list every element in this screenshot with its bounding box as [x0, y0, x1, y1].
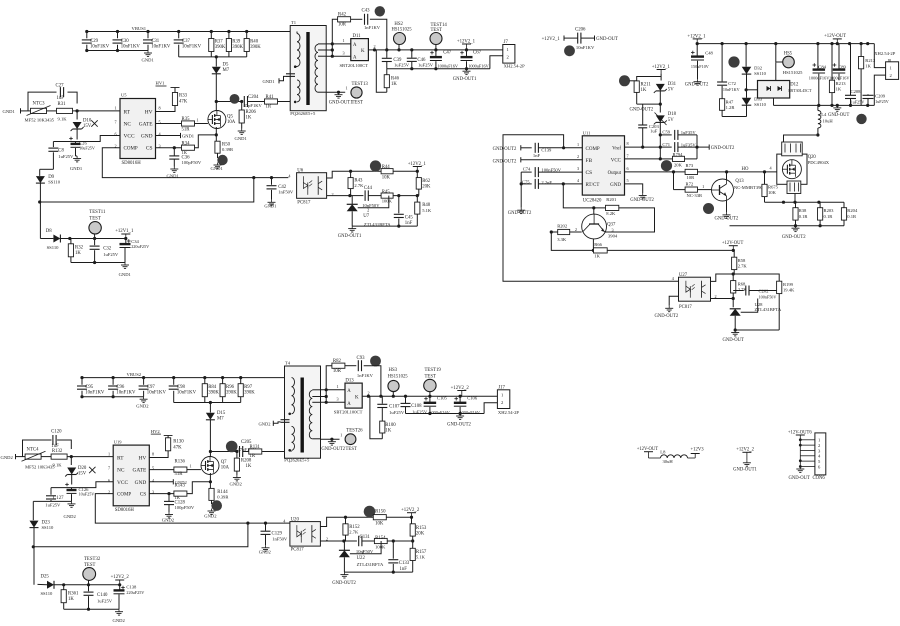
- junction: [38, 200, 41, 203]
- svg-text:+12V2_2: +12V2_2: [736, 448, 754, 453]
- junction: [866, 104, 869, 107]
- svg-text:10R: 10R: [687, 175, 696, 180]
- capacitor C84: [809, 44, 830, 106]
- resistor R143: [174, 483, 187, 500]
- svg-text:HS5: HS5: [784, 52, 793, 57]
- pin 1 label: [197, 118, 199, 123]
- svg-text:100K: 100K: [375, 545, 386, 550]
- svg-text:R84: R84: [208, 385, 217, 390]
- svg-text:NC: NC: [124, 122, 132, 128]
- svg-text:ZTL431BFTA: ZTL431BFTA: [357, 562, 384, 567]
- svg-text:R45: R45: [382, 190, 391, 195]
- svg-text:SS110: SS110: [754, 71, 767, 76]
- wire rt down: [563, 184, 605, 208]
- pin 3 label: [343, 51, 345, 56]
- svg-text:C108: C108: [411, 404, 422, 409]
- svg-text:+12V2_2: +12V2_2: [401, 508, 420, 513]
- svg-text:220uF25V: 220uF25V: [131, 244, 149, 249]
- svg-text:C37: C37: [182, 39, 191, 44]
- svg-text:D5: D5: [223, 63, 229, 68]
- wire L4 to Q20: [784, 135, 818, 147]
- svg-text:+12V3: +12V3: [691, 448, 705, 453]
- svg-text:390K: 390K: [226, 391, 237, 396]
- svg-text:C8: C8: [58, 148, 64, 153]
- inductor L8: [637, 447, 696, 464]
- junction: [246, 522, 249, 525]
- svg-text:C43: C43: [362, 9, 371, 14]
- junction: [672, 170, 675, 173]
- junction: [659, 133, 662, 136]
- svg-text:1: 1: [108, 452, 110, 457]
- inductor L4: [818, 105, 833, 135]
- ground GND1 under R50: [211, 163, 224, 172]
- svg-text:A: A: [353, 43, 357, 48]
- svg-text:HS151025: HS151025: [783, 70, 803, 75]
- svg-text:VCC: VCC: [124, 134, 135, 140]
- resistor R58: [732, 250, 748, 274]
- capacitor C139: [533, 143, 564, 158]
- test pad dark C43: [375, 6, 385, 16]
- wire COMP feedback2: [95, 494, 290, 523]
- ground GND-OUT2 out: [447, 414, 471, 428]
- junction: [142, 376, 145, 379]
- svg-text:HS3: HS3: [389, 368, 398, 373]
- junction: [392, 395, 395, 398]
- svg-text:D20: D20: [78, 466, 87, 471]
- svg-text:T1: T1: [291, 20, 297, 25]
- svg-text:SD8016H: SD8016H: [122, 161, 142, 166]
- wire U6 pin2: [327, 195, 350, 197]
- svg-text:C72: C72: [728, 81, 736, 86]
- svg-text:8: 8: [152, 452, 154, 457]
- junction: [794, 224, 797, 227]
- op-amp U5 SD8016H: [115, 93, 162, 167]
- junction: [252, 176, 255, 179]
- wire C204 to R41: [248, 101, 265, 103]
- svg-text:10uF25V: 10uF25V: [79, 492, 95, 497]
- svg-text:10nF1KV: 10nF1KV: [182, 45, 202, 50]
- junction: [860, 42, 863, 45]
- svg-text:D25: D25: [41, 575, 50, 580]
- ground GND1 under C36: [167, 167, 180, 179]
- junction: [330, 438, 333, 441]
- junction: [816, 42, 819, 45]
- junction: [763, 170, 766, 173]
- svg-text:1K: 1K: [836, 87, 842, 92]
- wire D25 row gnd rail: [64, 608, 119, 610]
- wire CS pin: [156, 147, 182, 149]
- zener D31: [654, 77, 677, 105]
- capacitor C120: [23, 430, 72, 457]
- svg-text:100nF50V: 100nF50V: [541, 167, 561, 172]
- capacitor C29: [82, 32, 110, 51]
- junction: [68, 237, 71, 240]
- capacitor C107: [377, 396, 405, 421]
- svg-text:SS110: SS110: [41, 591, 54, 596]
- shunt ref U7 ZTL431: [347, 196, 392, 227]
- wire CS pin2: [149, 493, 174, 495]
- wire snubber up2: [326, 366, 332, 403]
- svg-text:10A: 10A: [227, 120, 236, 125]
- svg-text:10uF25V: 10uF25V: [79, 145, 95, 150]
- svg-text:0.1R: 0.1R: [847, 214, 857, 219]
- ground GND-OUT2 q13: [715, 212, 739, 221]
- wire GND pin2: [149, 481, 173, 483]
- wire fb bottom rail: [352, 225, 417, 227]
- svg-text:1K: 1K: [865, 64, 871, 69]
- svg-text:1uF25V: 1uF25V: [418, 63, 434, 68]
- svg-text:C67: C67: [473, 51, 482, 56]
- junction: [434, 67, 437, 70]
- test pad dark C206: [564, 45, 575, 56]
- ground GND2 left: [1, 454, 24, 460]
- wire pin1 rail: [351, 170, 382, 172]
- diode D9: [36, 169, 61, 238]
- svg-text:3: 3: [612, 228, 614, 233]
- resistor R34: [182, 142, 195, 156]
- svg-text:1K: 1K: [246, 464, 252, 469]
- svg-text:10nF50V: 10nF50V: [362, 203, 380, 208]
- junction: [264, 522, 267, 525]
- transistor Q37: [582, 214, 618, 239]
- svg-text:GND-OUT2: GND-OUT2: [508, 211, 532, 216]
- svg-text:GND1: GND1: [182, 134, 194, 139]
- svg-text:R136: R136: [175, 460, 186, 465]
- svg-text:R794: R794: [673, 152, 684, 157]
- svg-text:PQ2626E5+5: PQ2626E5+5: [284, 458, 310, 463]
- test point TEST32: [83, 557, 101, 585]
- svg-text:GND-OUT2: GND-OUT2: [321, 447, 345, 452]
- junction: [465, 67, 468, 70]
- wire r66 right: [607, 249, 733, 251]
- svg-text:1uF35V: 1uF35V: [681, 142, 697, 147]
- svg-text:D10: D10: [83, 119, 92, 124]
- ground GND1 under C42: [264, 200, 276, 209]
- junction: [416, 194, 419, 197]
- wire fb to D25 row: [33, 523, 248, 547]
- svg-text:1K: 1K: [391, 82, 397, 87]
- svg-text:1K: 1K: [641, 88, 647, 93]
- diode D12 SBT30L45CT: [758, 81, 813, 99]
- svg-text:NC-33R: NC-33R: [687, 193, 704, 198]
- svg-text:5: 5: [627, 178, 629, 183]
- power +12V2_2 fb: [401, 508, 420, 517]
- junction: [562, 146, 565, 149]
- junction: [734, 328, 737, 331]
- wire cap bottom rail: [87, 50, 148, 52]
- capacitor C37: [174, 32, 202, 57]
- ground GND1 left: [3, 108, 30, 114]
- svg-text:GND-OUT: GND-OUT: [789, 476, 810, 481]
- resistor R100: [380, 421, 397, 439]
- ground GND-OUT main: [828, 105, 849, 118]
- wire clamp top: [660, 74, 662, 77]
- svg-text:C133: C133: [399, 561, 410, 566]
- svg-text:D12: D12: [790, 83, 799, 88]
- svg-text:1nF1KV: 1nF1KV: [364, 25, 381, 30]
- junction: [331, 42, 334, 45]
- svg-text:GND: GND: [135, 480, 147, 486]
- wire c caps gnd2: [33, 500, 71, 502]
- svg-text:C93: C93: [357, 356, 366, 361]
- capacitor C108: [401, 396, 428, 414]
- wire cap bottom rail2: [82, 396, 144, 398]
- svg-text:2.7K: 2.7K: [738, 263, 748, 268]
- power +12V2_1 main: [687, 34, 706, 43]
- svg-text:C139: C139: [541, 147, 552, 152]
- resistor R44: [381, 165, 393, 181]
- test pad dark L4: [856, 114, 866, 124]
- diode D23: [30, 501, 55, 584]
- svg-text:C32: C32: [103, 247, 112, 252]
- svg-text:100pF50V: 100pF50V: [175, 505, 195, 510]
- ground GND2 under R144: [204, 509, 217, 519]
- svg-text:GND2: GND2: [1, 455, 14, 460]
- svg-text:GND2: GND2: [230, 482, 243, 487]
- svg-text:100nF50V: 100nF50V: [759, 294, 777, 299]
- svg-text:XH2.54-2P: XH2.54-2P: [874, 51, 896, 56]
- svg-text:8: 8: [627, 141, 629, 146]
- wire output gnd rail2: [406, 413, 485, 415]
- svg-text:T4: T4: [285, 361, 291, 366]
- svg-text:PQ2626E5+5: PQ2626E5+5: [290, 111, 316, 116]
- pin 1 label: [343, 38, 345, 43]
- ground GND2 tag at pin4: [173, 479, 187, 485]
- capacitor C129: [261, 523, 288, 545]
- pin 1 label d13: [337, 384, 339, 389]
- test point HS3: [388, 368, 409, 396]
- junction: [172, 376, 175, 379]
- svg-text:GND-OUT2: GND-OUT2: [630, 108, 654, 113]
- resistor R212: [859, 44, 876, 106]
- junction: [87, 608, 90, 611]
- resistor R361: [61, 584, 79, 609]
- svg-text:10nF1KV: 10nF1KV: [90, 45, 110, 50]
- wire sense gnd rail: [730, 225, 845, 227]
- connector J8: [874, 44, 898, 106]
- resistor R204: [841, 202, 858, 226]
- wire U20 pin1: [320, 517, 345, 526]
- wire pin1 rail2: [346, 516, 374, 518]
- power +12V-OUT main: [824, 34, 846, 44]
- svg-text:U20: U20: [291, 517, 300, 522]
- svg-text:SBT20L100CT: SBT20L100CT: [340, 63, 369, 68]
- svg-text:R675: R675: [768, 185, 779, 190]
- svg-text:5V: 5V: [668, 118, 674, 123]
- svg-text:R132: R132: [52, 449, 63, 454]
- wire sense rail: [765, 201, 845, 203]
- svg-text:NC: NC: [117, 468, 125, 474]
- test pad dark C205: [226, 441, 238, 453]
- svg-text:C74: C74: [523, 167, 531, 172]
- svg-text:C96: C96: [116, 385, 125, 390]
- svg-text:3904: 3904: [608, 234, 618, 239]
- ground GND1 shield: [263, 76, 287, 84]
- ground GND2 under C97: [136, 397, 149, 409]
- resistor R794: [660, 152, 697, 168]
- junction: [793, 201, 796, 204]
- junction: [410, 48, 413, 51]
- wire D8 row: [60, 238, 125, 240]
- diode D32: [742, 44, 767, 90]
- svg-text:+12V2_1: +12V2_1: [542, 37, 561, 42]
- svg-text:R62: R62: [422, 179, 431, 184]
- junction: [112, 376, 115, 379]
- junction: [93, 261, 96, 264]
- svg-text:10nF1KV: 10nF1KV: [147, 391, 167, 396]
- junction: [70, 455, 73, 458]
- junction: [410, 516, 413, 519]
- svg-text:1nF: 1nF: [533, 153, 541, 158]
- junction: [240, 100, 243, 103]
- ground GND-OUT1: [453, 69, 477, 82]
- test pad dark R794: [661, 160, 672, 171]
- junction: [404, 395, 407, 398]
- ground GND-OUT2 U11: [630, 193, 654, 203]
- zener D10: [71, 111, 92, 140]
- capacitor C27: [28, 84, 77, 111]
- svg-text:7: 7: [108, 466, 110, 471]
- svg-text:R153: R153: [416, 526, 427, 531]
- no-fit mark: [91, 120, 97, 126]
- svg-text:RT/CT: RT/CT: [586, 183, 600, 188]
- optocoupler U27 PC817: [672, 273, 717, 310]
- resistor R46: [384, 69, 399, 93]
- svg-text:51R: 51R: [175, 472, 184, 477]
- capacitor C93: [357, 356, 374, 378]
- svg-text:2.2nF: 2.2nF: [541, 180, 552, 185]
- capacitor C67: [460, 50, 489, 69]
- svg-text:D31: D31: [668, 82, 677, 87]
- wire R41 to T1: [278, 101, 295, 103]
- junction: [819, 224, 822, 227]
- junction: [849, 104, 852, 107]
- wire bottom tap: [326, 91, 345, 93]
- svg-text:10nF1KV: 10nF1KV: [177, 391, 197, 396]
- svg-text:SD8016H: SD8016H: [115, 508, 135, 513]
- junction: [80, 395, 83, 398]
- wire R82-C93: [345, 365, 356, 367]
- wire HV pin: [156, 106, 176, 112]
- node HV1: [156, 81, 167, 87]
- capacitor C72: [717, 44, 740, 99]
- junction: [210, 30, 213, 33]
- wire D8 row gnd rail: [71, 262, 125, 264]
- svg-text:9.1K: 9.1K: [53, 462, 63, 467]
- svg-text:C84: C84: [818, 65, 826, 70]
- node HV2: [151, 429, 161, 434]
- svg-text:C98: C98: [177, 385, 186, 390]
- junction: [325, 388, 328, 391]
- resistor R33: [171, 88, 188, 106]
- capacitor C26: [69, 137, 95, 156]
- svg-text:R39: R39: [232, 40, 241, 45]
- junction: [76, 109, 79, 112]
- svg-text:10nF1KV: 10nF1KV: [85, 391, 105, 396]
- junction: [209, 450, 212, 453]
- svg-text:TEST32: TEST32: [84, 557, 101, 562]
- test point TEST19: [424, 368, 442, 396]
- resistor R211: [634, 81, 651, 104]
- svg-text:GND2: GND2: [64, 514, 77, 519]
- test pad dark C204: [230, 94, 240, 104]
- op-amp U19 SD8016H: [108, 440, 155, 513]
- svg-text:8: 8: [159, 106, 161, 111]
- ground GND-OUT2 comp: [493, 145, 532, 152]
- junction: [562, 182, 565, 185]
- svg-text:SBT20L100CT: SBT20L100CT: [334, 410, 363, 415]
- svg-text:10nF1KV: 10nF1KV: [723, 87, 740, 92]
- svg-text:C120: C120: [51, 430, 62, 435]
- svg-text:FB: FB: [586, 158, 593, 164]
- svg-text:20K: 20K: [422, 185, 431, 190]
- svg-text:0.39R: 0.39R: [217, 495, 229, 500]
- svg-text:C45: C45: [405, 216, 414, 221]
- svg-text:1.2R: 1.2R: [726, 105, 736, 110]
- junction: [221, 376, 224, 379]
- capacitor C96: [108, 378, 136, 397]
- svg-text:47K: 47K: [179, 100, 188, 105]
- wire r201 right: [605, 208, 654, 232]
- svg-text:R82: R82: [333, 359, 342, 364]
- power +12V2_2 tie: [733, 448, 757, 473]
- svg-text:1uF25V: 1uF25V: [389, 410, 405, 415]
- junction: [416, 170, 419, 173]
- wire U20 pin2: [320, 540, 344, 542]
- svg-text:0.1R: 0.1R: [799, 214, 809, 219]
- junction: [93, 237, 96, 240]
- wire fb bottom rail2: [344, 571, 412, 573]
- svg-text:VCC: VCC: [611, 159, 622, 164]
- svg-text:GND-OUT1: GND-OUT1: [733, 468, 757, 473]
- resistor R136: [174, 460, 187, 477]
- svg-text:R199: R199: [783, 282, 794, 287]
- wire comp pin: [564, 147, 583, 149]
- ground GND2 under C126: [64, 501, 77, 519]
- svg-text:51R: 51R: [182, 128, 191, 133]
- svg-text:1uF25V: 1uF25V: [394, 62, 410, 67]
- wire R row bottom rail2: [174, 402, 241, 404]
- resistor R84: [202, 378, 219, 403]
- junction: [367, 395, 370, 398]
- svg-text:+12V-OUT: +12V-OUT: [722, 241, 744, 246]
- capacitor C34: [120, 239, 150, 263]
- svg-text:1nF: 1nF: [400, 567, 408, 572]
- svg-text:1000uF16V: 1000uF16V: [809, 75, 830, 80]
- svg-text:GND-OUT: GND-OUT: [596, 37, 618, 42]
- svg-text:R211: R211: [641, 83, 652, 88]
- svg-text:1K: 1K: [182, 150, 188, 155]
- wire GATE2: [149, 469, 174, 471]
- wire R154 right: [387, 540, 413, 542]
- wire tap3: [326, 55, 351, 57]
- test point HS5: [776, 52, 803, 75]
- power +12V3: [691, 448, 705, 454]
- ground GND2 under R208: [230, 475, 243, 487]
- svg-text:10K: 10K: [768, 190, 777, 195]
- transistor Q20: [777, 142, 830, 194]
- svg-text:0.39R: 0.39R: [222, 147, 234, 152]
- svg-text:2.7K: 2.7K: [354, 183, 364, 188]
- svg-text:HV: HV: [139, 456, 147, 462]
- svg-text:GND-OUT2: GND-OUT2: [493, 159, 517, 164]
- wire tapcb: [316, 396, 326, 398]
- resistor R199: [777, 281, 795, 330]
- svg-text:RT: RT: [117, 456, 124, 462]
- svg-text:GATE: GATE: [139, 122, 153, 128]
- svg-text:2: 2: [368, 390, 370, 395]
- test pad dark R44: [370, 160, 381, 171]
